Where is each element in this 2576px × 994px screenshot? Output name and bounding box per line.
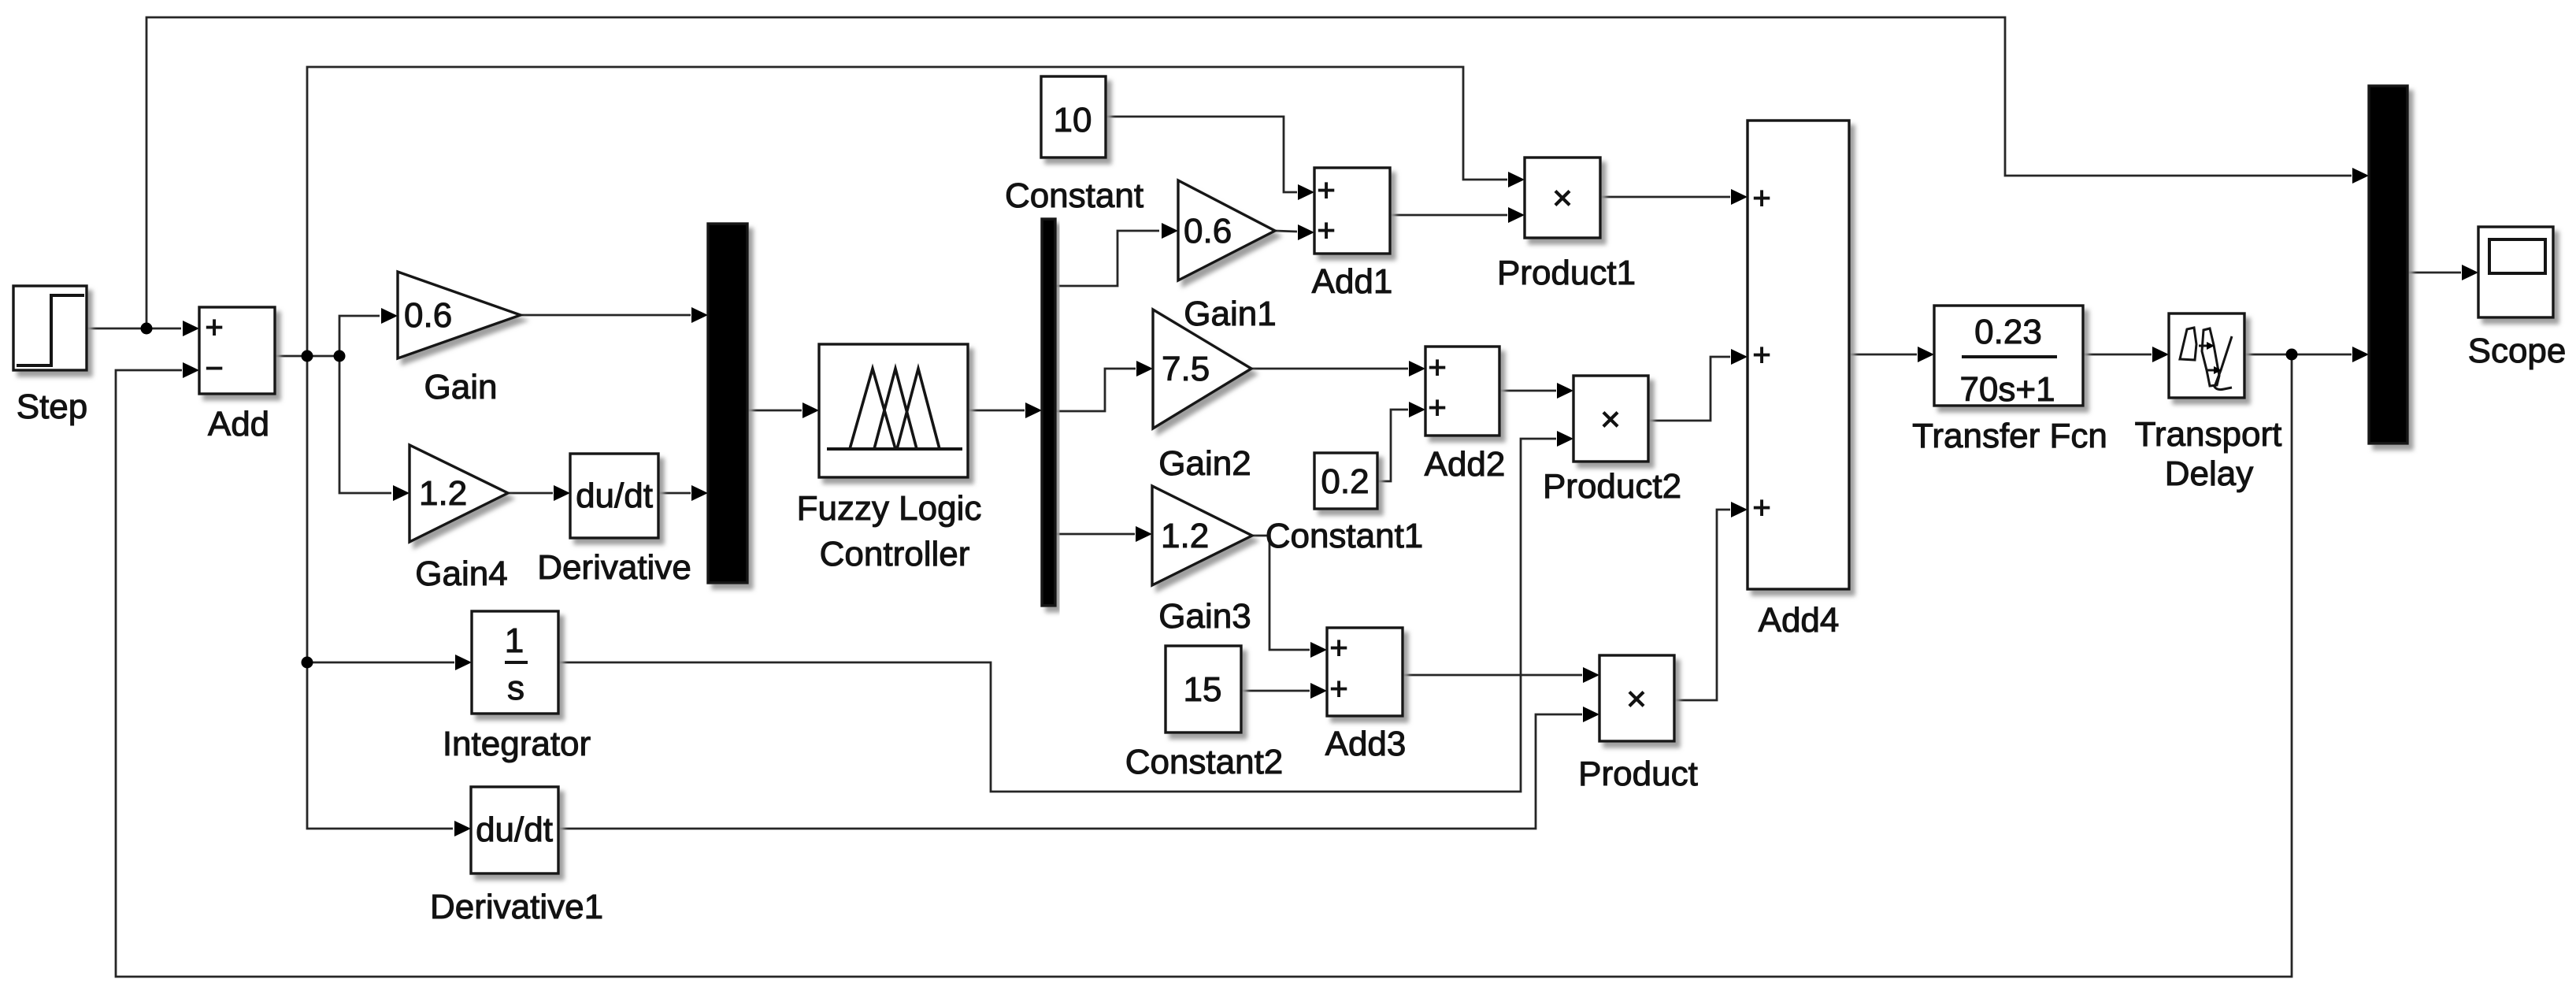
svg-text:Delay: Delay — [2165, 454, 2254, 493]
svg-text:Gain1: Gain1 — [1184, 295, 1276, 333]
fuzzy icon membership triangle 1 — [850, 369, 895, 449]
fuzzy logic controller block U fuzzy — [819, 344, 968, 477]
arrowhead into Product1 input1 — [1508, 172, 1525, 187]
svg-text:+: + — [1752, 491, 1770, 525]
arrowhead into Demux — [1025, 402, 1042, 418]
transport delay icon hump 1 — [2180, 328, 2196, 360]
transfer fcn fraction bar — [1962, 355, 2057, 358]
fuzzy icon membership triangle 3 — [897, 369, 940, 449]
wire Constant 10 to Add1 input1 — [1106, 117, 1297, 192]
svg-text:+: + — [1752, 338, 1770, 373]
transport delay icon slash curve — [2215, 336, 2232, 390]
svg-text:1.2: 1.2 — [1161, 517, 1209, 555]
arrowhead into Add minus — [183, 362, 199, 378]
demux block Demux — [1042, 219, 1055, 606]
wire Add3 output to Product input1 — [1403, 674, 1582, 677]
node junction Integrator branch — [302, 657, 313, 669]
svg-text:7.5: 7.5 — [1162, 350, 1210, 388]
svg-text:0.2: 0.2 — [1321, 462, 1369, 501]
wire Add2 output to Product2 input1 — [1499, 390, 1556, 392]
svg-text:Product2: Product2 — [1543, 467, 1681, 506]
arrowhead into Product2 input1 — [1557, 383, 1573, 399]
wire Add4 output to Transfer Fcn — [1849, 354, 1917, 356]
sum block Add2 — [1425, 347, 1499, 436]
gain block Gain 0.6 — [398, 272, 521, 358]
svg-text:0.6: 0.6 — [404, 296, 452, 335]
arrowhead into Add2 input1 — [1409, 361, 1425, 376]
arrowhead into Add2 input2 — [1409, 402, 1425, 417]
svg-text:Transfer Fcn: Transfer Fcn — [1912, 417, 2107, 455]
arrowhead into Mux1 input2 — [691, 485, 708, 501]
arrowhead into Fuzzy Logic Controller — [802, 402, 819, 418]
wire Product1 output to Add4 input1 — [1600, 196, 1730, 198]
mux block Mux1 — [708, 224, 747, 583]
wire Product2 output to Add4 input2 — [1648, 357, 1730, 421]
fuzzy icon baseline — [827, 447, 962, 451]
arrowhead into Gain1 — [1162, 223, 1178, 239]
svg-text:Add3: Add3 — [1325, 725, 1407, 763]
wire Gain1 output to Add1 input2 — [1275, 231, 1297, 232]
svg-text:0.23: 0.23 — [1974, 313, 2042, 351]
svg-text:+: + — [1329, 631, 1347, 666]
svg-text:du/dt: du/dt — [576, 477, 653, 515]
product block Product2 — [1573, 376, 1648, 462]
constant block Constant1 0.2 — [1314, 453, 1377, 509]
svg-text:+: + — [1428, 391, 1446, 425]
step icon waveform — [17, 295, 84, 365]
arrowhead into Add3 input1 — [1310, 642, 1327, 658]
arrowhead into Add1 input1 — [1298, 184, 1314, 200]
wire Constant2 15 to Add3 input2 — [1241, 690, 1310, 692]
arrowhead into Add plus — [183, 321, 199, 336]
arrowhead into Add3 input2 — [1310, 683, 1327, 699]
svg-text:Gain: Gain — [424, 368, 498, 406]
wire Add output — [275, 355, 339, 358]
arrowhead into Product2 input2 — [1557, 431, 1573, 447]
product block Product — [1599, 655, 1674, 741]
svg-text:×: × — [1626, 680, 1647, 718]
mux block Mux2 — [2369, 86, 2407, 443]
svg-text:70s+1: 70s+1 — [1959, 370, 2055, 409]
gain block Gain4 1.2 — [410, 445, 508, 542]
scope block Scope — [2478, 227, 2553, 317]
wire Derivative1 output to Product input2 — [558, 714, 1582, 829]
gain block Gain1 0.6 — [1178, 180, 1275, 280]
sum block Add1 — [1314, 168, 1390, 254]
arrowhead into Scope — [2462, 265, 2478, 280]
svg-text:+: + — [205, 310, 223, 345]
svg-text:du/dt: du/dt — [476, 810, 553, 849]
svg-text:15: 15 — [1184, 670, 1222, 709]
svg-text:0.6: 0.6 — [1184, 212, 1232, 250]
arrowhead into Product input2 — [1583, 707, 1599, 722]
wire Gain4 output to Derivative — [508, 492, 553, 495]
node junction Transport Delay output — [2286, 349, 2298, 361]
sum block Add — [199, 307, 275, 394]
wire Mux1 output to Fuzzy Logic Controller — [747, 410, 802, 412]
wire branch up to Gain input — [339, 316, 380, 356]
arrowhead into Gain2 — [1136, 361, 1153, 376]
arrowhead into Product1 input2 — [1508, 207, 1525, 223]
wire Gain output to Mux1 — [520, 314, 691, 317]
wire Fuzzy output to Demux — [968, 410, 1025, 412]
wire Product output to Add4 input3 — [1674, 510, 1730, 700]
gain block Gain3 1.2 — [1152, 486, 1252, 585]
svg-text:1: 1 — [505, 621, 524, 660]
arrowhead into Transport Delay — [2152, 347, 2169, 362]
wire Add1 output to Product1 input2 — [1390, 214, 1507, 217]
svg-text:Add2: Add2 — [1425, 445, 1506, 484]
svg-text:Constant1: Constant1 — [1266, 517, 1424, 555]
svg-text:Fuzzy Logic: Fuzzy Logic — [797, 489, 982, 528]
arrowhead into Add4 input3 — [1731, 502, 1748, 517]
svg-text:Derivative: Derivative — [537, 548, 691, 587]
arrowhead into Mux1 input1 — [691, 307, 708, 323]
svg-text:s: s — [507, 669, 524, 707]
wire Demux out3 to Gain3 — [1055, 533, 1135, 536]
integrator block Integrator 1/s — [472, 611, 558, 714]
wire Step branch up to top rail into Mux2 input1 — [146, 17, 2352, 328]
transport delay block Transport Delay — [2169, 313, 2244, 398]
wire Derivative output to Mux1 — [658, 492, 691, 495]
svg-text:+: + — [1317, 213, 1335, 248]
node junction on Add output 1 — [302, 350, 313, 362]
node junction on Add output 2 — [334, 350, 346, 362]
svg-text:−: − — [205, 351, 223, 386]
wire Transfer Fcn output to Transport Delay — [2083, 354, 2152, 356]
source block Step — [13, 286, 87, 370]
arrowhead into Gain4 — [393, 485, 410, 501]
svg-text:×: × — [1552, 179, 1573, 217]
scope icon screen — [2489, 239, 2545, 273]
wire Integrator output to Product2 input2 — [558, 439, 1556, 792]
derivative block Derivative1 du/dt — [471, 787, 558, 873]
svg-text:Product: Product — [1578, 755, 1698, 793]
wire Constant1 0.2 to Add2 input2 — [1377, 410, 1408, 481]
arrowhead into Integrator — [455, 655, 472, 670]
wire Transport Delay output to Mux2 input2 — [2244, 354, 2352, 356]
sum block Add3 — [1327, 628, 1403, 716]
wire Demux out2 to Gain2 — [1055, 369, 1136, 411]
fuzzy icon membership triangle 2 — [874, 369, 917, 449]
svg-text:Add4: Add4 — [1759, 601, 1840, 640]
wire Gain2 output to Add2 input1 — [1251, 368, 1408, 370]
svg-text:+: + — [1329, 672, 1347, 707]
svg-text:Step: Step — [17, 388, 88, 426]
product block Product1 — [1525, 158, 1600, 238]
svg-text:Add: Add — [208, 405, 269, 443]
wire feedback from Transport Delay junction to Add minus input — [116, 354, 2292, 977]
arrowhead into Derivative1 — [454, 821, 471, 836]
svg-text:Gain2: Gain2 — [1158, 444, 1251, 483]
wire branch to Integrator — [307, 662, 454, 664]
wire Add output branch up to y84 rail into Product1 input1 — [307, 67, 1507, 356]
svg-text:Constant: Constant — [1005, 176, 1143, 215]
wire branch down to Gain4 input — [339, 356, 391, 493]
svg-text:Constant2: Constant2 — [1125, 743, 1284, 781]
arrowhead into Derivative — [554, 485, 570, 501]
svg-text:Product1: Product1 — [1497, 254, 1636, 292]
derivative block Derivative du/dt — [570, 454, 658, 538]
wire Demux out1 to Gain1 — [1055, 231, 1159, 286]
svg-text:1.2: 1.2 — [419, 474, 467, 513]
svg-text:+: + — [1317, 173, 1335, 208]
arrowhead into Add4 input2 — [1731, 349, 1748, 365]
node junction on Step output — [141, 323, 153, 335]
svg-text:Derivative1: Derivative1 — [430, 888, 603, 926]
transport delay icon arrow 1 — [2199, 345, 2208, 347]
svg-text:10: 10 — [1054, 101, 1092, 139]
wire Step to Add plus input — [87, 328, 181, 330]
arrowhead into Mux2 input1 — [2352, 168, 2369, 184]
sum block Add4 — [1748, 121, 1849, 589]
integrator fraction bar — [505, 661, 528, 664]
wire Gain3 output to Add3 input1 — [1252, 536, 1310, 650]
arrowhead into Add4 input1 — [1731, 189, 1748, 205]
transfer function block Transfer Fcn — [1934, 306, 2083, 406]
arrowhead into Add1 input2 — [1298, 224, 1314, 240]
arrowhead into Transfer Fcn — [1918, 347, 1934, 362]
svg-text:Gain4: Gain4 — [415, 554, 507, 593]
wire Mux2 output to Scope — [2407, 272, 2461, 274]
arrowhead into Mux2 input2 — [2352, 347, 2369, 362]
transport delay icon arrow 2 — [2207, 369, 2215, 372]
arrowhead into Gain — [381, 308, 398, 324]
svg-text:Controller: Controller — [820, 535, 970, 573]
svg-text:+: + — [1428, 350, 1446, 385]
constant block Constant2 15 — [1166, 646, 1241, 733]
svg-text:Add1: Add1 — [1312, 262, 1393, 301]
svg-text:Integrator: Integrator — [443, 725, 591, 763]
svg-text:+: + — [1752, 181, 1770, 216]
transport delay icon hump 2 band — [2202, 328, 2219, 386]
svg-text:×: × — [1600, 400, 1621, 439]
arrowhead into Product input1 — [1583, 667, 1599, 683]
svg-text:Transport: Transport — [2135, 415, 2282, 454]
svg-text:Gain3: Gain3 — [1158, 597, 1251, 636]
constant block Constant 10 — [1041, 76, 1106, 158]
gain block Gain2 7.5 — [1153, 310, 1251, 428]
svg-text:Scope: Scope — [2468, 332, 2567, 370]
wire Add output branch down to Integrator and Derivative1 — [307, 356, 453, 829]
arrowhead into Gain3 — [1136, 526, 1152, 542]
